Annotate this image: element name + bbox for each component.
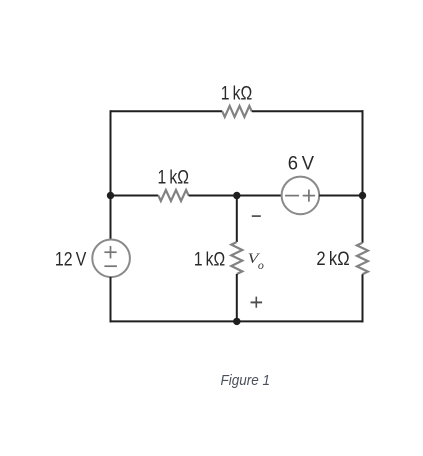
node right junction bbox=[359, 192, 366, 199]
svg-text:1 kΩ: 1 kΩ bbox=[194, 249, 225, 270]
resistor R mid 1k zigzag bbox=[158, 190, 188, 201]
wire middle left segment bbox=[111, 195, 159, 197]
svg-text:1 kΩ: 1 kΩ bbox=[221, 84, 253, 105]
node left junction bbox=[107, 192, 114, 199]
voltage source V1 12V circle bbox=[92, 239, 130, 277]
V2 plus sign bbox=[303, 195, 315, 197]
resistor R top 1k zigzag bbox=[222, 106, 252, 117]
node bottom junction bbox=[233, 318, 240, 325]
resistor R center 1k zigzag bbox=[231, 242, 242, 274]
Vo plus polarity bbox=[251, 301, 263, 303]
V1 minus sign bbox=[104, 265, 117, 267]
wire center vertical upper bbox=[236, 196, 238, 243]
wire top left segment bbox=[111, 110, 223, 112]
wire right vertical lower bbox=[362, 274, 364, 322]
svg-text:12 V: 12 V bbox=[55, 250, 87, 271]
wire center vertical lower bbox=[236, 274, 238, 321]
Vo minus polarity bbox=[252, 215, 261, 217]
wire middle center segment bbox=[189, 195, 282, 197]
V2 minus sign bbox=[285, 195, 299, 197]
svg-text:1 kΩ: 1 kΩ bbox=[158, 168, 190, 189]
voltage source V2 6V circle bbox=[282, 177, 320, 215]
svg-text:2 kΩ: 2 kΩ bbox=[316, 249, 349, 270]
wire bottom bbox=[110, 320, 364, 322]
node center junction bbox=[233, 192, 240, 199]
resistor R right 2k zigzag bbox=[357, 243, 368, 274]
wire left vertical lower bbox=[110, 277, 112, 322]
wire top right segment bbox=[252, 110, 364, 112]
V1 plus sign bbox=[104, 251, 116, 253]
wire middle right segment bbox=[319, 195, 362, 197]
wire left vertical upper bbox=[110, 110, 112, 239]
svg-text:o: o bbox=[258, 260, 264, 272]
svg-text:Figure 1: Figure 1 bbox=[221, 372, 271, 389]
wire right vertical upper bbox=[362, 110, 364, 243]
svg-text:6 V: 6 V bbox=[288, 154, 315, 175]
